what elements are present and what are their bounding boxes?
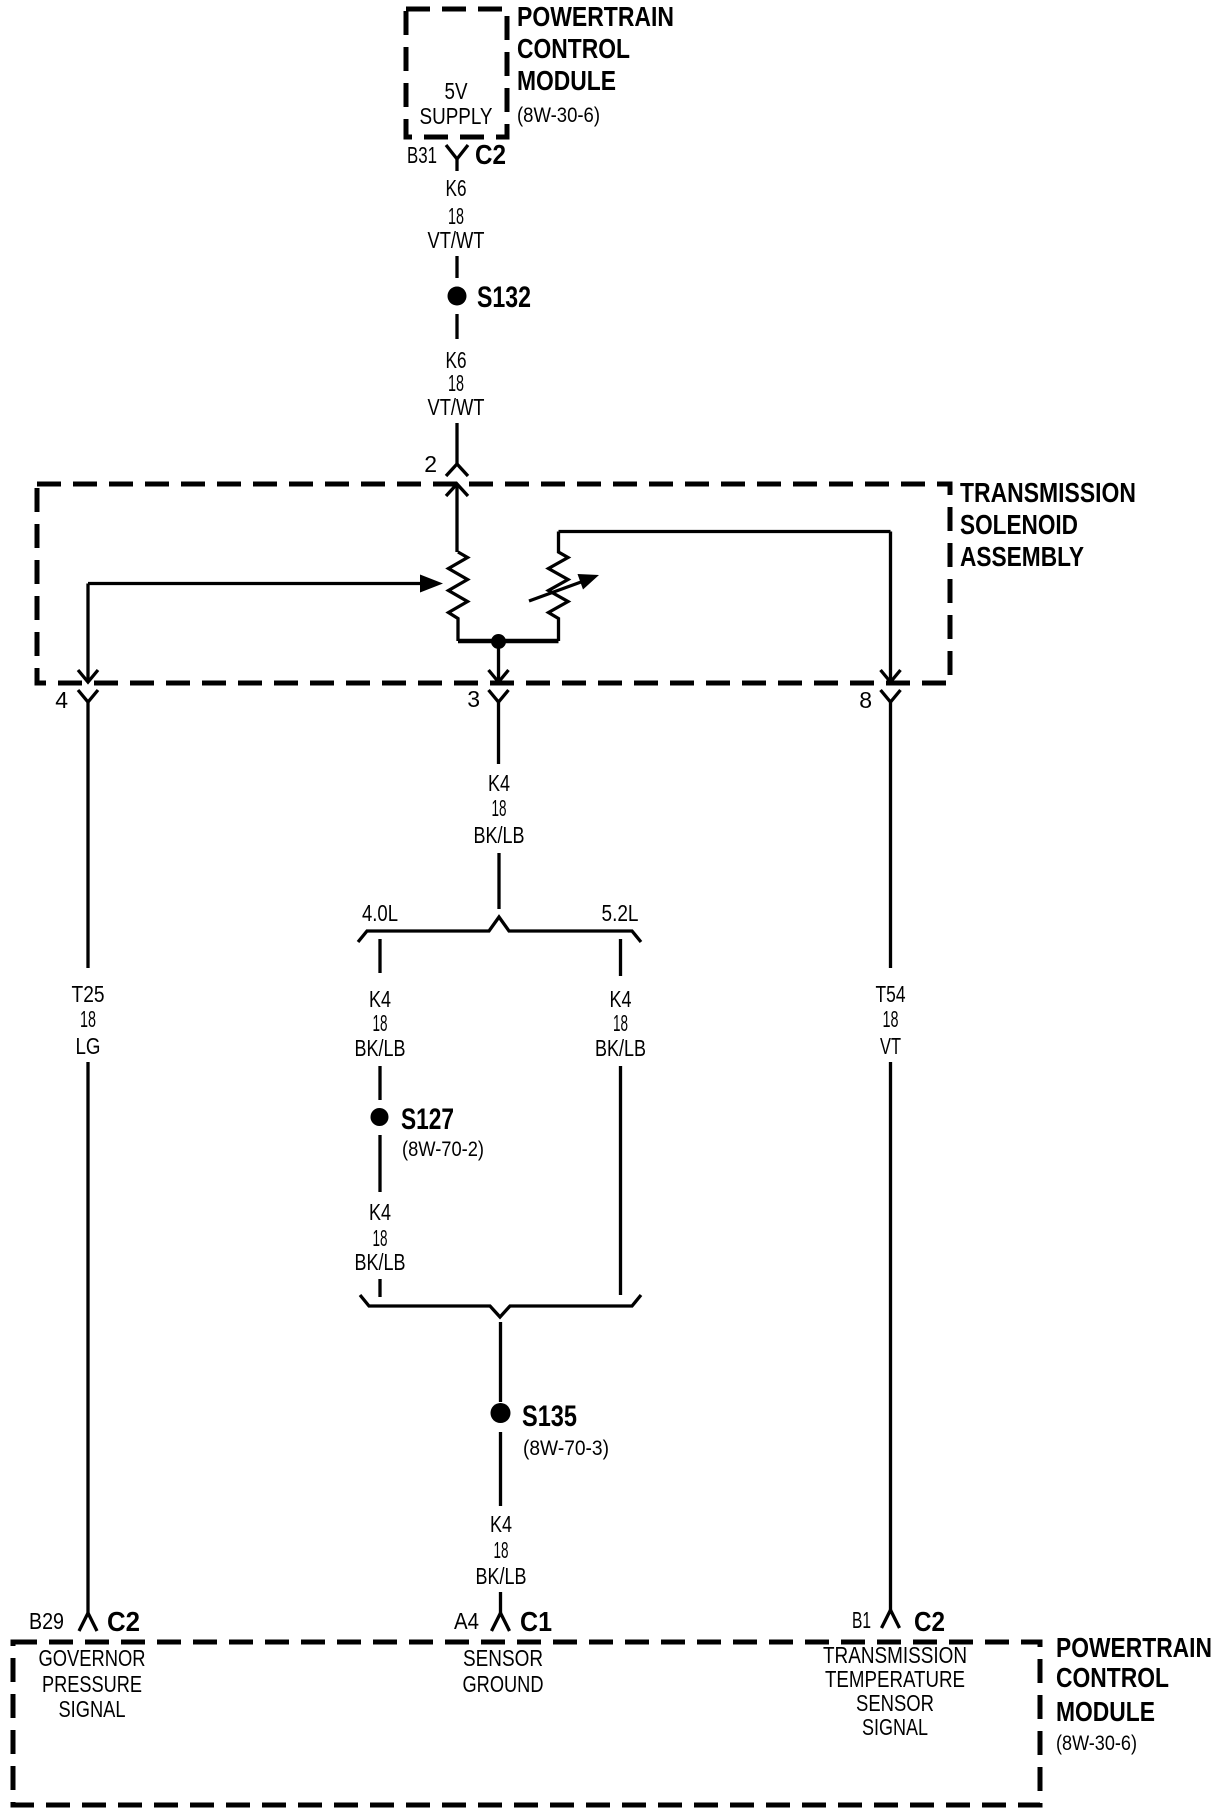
- wire label K6 18 VT/WT (upper): [428, 175, 485, 253]
- svg-text:SIGNAL: SIGNAL: [59, 1696, 126, 1722]
- svg-text:18: 18: [373, 1010, 388, 1036]
- svg-text:3: 3: [467, 686, 480, 712]
- junction wire at resistor bottoms: [458, 639, 559, 644]
- junction node: [491, 634, 506, 649]
- wire from S132 down: [455, 314, 458, 339]
- svg-text:SUPPLY: SUPPLY: [420, 103, 493, 129]
- wire label K4 18 BK/LB (below S127): [355, 1199, 406, 1275]
- component box: transmission solenoid assembly: [37, 484, 950, 683]
- wire 5.2L branch upper: [619, 939, 622, 976]
- svg-text:18: 18: [613, 1010, 628, 1036]
- wire label T25 18 LG: [72, 981, 105, 1059]
- svg-text:GROUND: GROUND: [463, 1671, 544, 1697]
- svg-text:18: 18: [373, 1225, 388, 1251]
- svg-text:18: 18: [448, 203, 464, 229]
- connector fork B29: [79, 1613, 97, 1631]
- wire 5.2L branch long segment: [619, 1066, 622, 1295]
- wire right column lower segment: [889, 1062, 892, 1610]
- pin 2 arrow (into solenoid box): [446, 484, 468, 552]
- connector fork pin 4: [78, 690, 98, 713]
- svg-text:GOVERNOR: GOVERNOR: [39, 1645, 146, 1671]
- wire pin 3 to label: [497, 713, 500, 764]
- wire to solenoid pin 2: [455, 423, 458, 464]
- splice S132: [448, 281, 532, 314]
- svg-text:K6: K6: [446, 175, 467, 201]
- svg-text:S135: S135: [522, 1400, 577, 1433]
- svg-text:SENSOR: SENSOR: [856, 1690, 934, 1716]
- svg-text:SENSOR: SENSOR: [463, 1645, 543, 1671]
- connector fork pin 2: [446, 464, 468, 476]
- wire stem below B31 fork: [455, 159, 458, 171]
- splice S135: [491, 1400, 610, 1460]
- wire label K4 18 BK/LB (bottom): [476, 1511, 527, 1589]
- svg-text:18: 18: [492, 795, 507, 821]
- svg-text:(8W-30-6): (8W-30-6): [1056, 1732, 1137, 1755]
- connector fork pin 8: [881, 690, 901, 713]
- svg-text:K4: K4: [610, 986, 632, 1012]
- title: POWERTRAIN CONTROL MODULE (8W-30-6) bottom: [1056, 1632, 1212, 1755]
- svg-text:BK/LB: BK/LB: [474, 822, 525, 848]
- wire from S135 down: [499, 1432, 502, 1506]
- svg-text:ASSEMBLY: ASSEMBLY: [960, 541, 1084, 572]
- wire from S127 down: [378, 1135, 381, 1192]
- wire temp sensor to pin 8 (inside box): [559, 532, 901, 683]
- svg-text:(8W-30-6): (8W-30-6): [517, 104, 600, 127]
- svg-text:18: 18: [494, 1537, 509, 1563]
- wire left column lower segment: [86, 1062, 89, 1613]
- wire to A4 connector: [499, 1592, 502, 1613]
- module box: powertrain control module (top, 5V supply): [406, 9, 507, 137]
- wire pin 4 branch (inside box): [78, 584, 98, 683]
- resistor: governor pressure sensor: [449, 552, 468, 641]
- svg-text:TRANSMISSION: TRANSMISSION: [823, 1642, 967, 1668]
- wire label T54 18 VT: [876, 981, 906, 1059]
- svg-text:2: 2: [424, 451, 437, 477]
- svg-text:POWERTRAIN: POWERTRAIN: [1056, 1632, 1212, 1663]
- svg-text:18: 18: [448, 370, 464, 396]
- svg-text:PRESSURE: PRESSURE: [42, 1671, 142, 1697]
- svg-text:C2: C2: [107, 1606, 140, 1637]
- svg-text:B29: B29: [29, 1608, 64, 1634]
- svg-text:VT: VT: [880, 1033, 901, 1059]
- svg-text:SIGNAL: SIGNAL: [862, 1714, 928, 1740]
- svg-text:TEMPERATURE: TEMPERATURE: [825, 1666, 965, 1692]
- wire to splice S127: [378, 1066, 381, 1100]
- wire right column upper segment: [889, 713, 892, 968]
- svg-text:LG: LG: [76, 1033, 101, 1059]
- wire label to split brace: [497, 853, 500, 909]
- svg-text:B31: B31: [407, 142, 437, 168]
- svg-text:BK/LB: BK/LB: [355, 1249, 406, 1275]
- svg-text:S132: S132: [477, 281, 531, 314]
- svg-text:VT/WT: VT/WT: [428, 227, 485, 253]
- wire label K4 18 BK/LB (4.0L): [355, 986, 406, 1061]
- svg-text:K4: K4: [488, 770, 510, 796]
- wire 4.0L branch upper: [378, 939, 381, 973]
- wire label K4 18 BK/LB (center upper): [474, 770, 525, 848]
- connector fork B1: [882, 1610, 900, 1628]
- svg-text:5.2L: 5.2L: [602, 900, 639, 926]
- svg-text:(8W-70-2): (8W-70-2): [402, 1138, 484, 1161]
- svg-text:CONTROL: CONTROL: [1056, 1662, 1169, 1693]
- label SENSOR GROUND: [463, 1645, 544, 1697]
- wire left column upper segment: [86, 713, 89, 968]
- wire merge brace to S135: [499, 1322, 502, 1402]
- svg-text:T25: T25: [72, 981, 105, 1007]
- label TRANSMISSION TEMPERATURE SENSOR SIGNAL: [823, 1642, 967, 1740]
- svg-text:POWERTRAIN: POWERTRAIN: [517, 1, 674, 32]
- svg-text:4: 4: [55, 687, 68, 713]
- svg-text:C1: C1: [520, 1606, 552, 1637]
- wire to splice S132: [455, 256, 458, 278]
- svg-text:BK/LB: BK/LB: [595, 1035, 646, 1061]
- svg-text:4.0L: 4.0L: [362, 900, 398, 926]
- connector fork pin 3: [489, 690, 509, 713]
- svg-text:18: 18: [80, 1006, 96, 1032]
- svg-text:B1: B1: [852, 1607, 871, 1633]
- svg-text:CONTROL: CONTROL: [517, 33, 630, 64]
- wire label K6 18 VT/WT (lower): [428, 347, 485, 420]
- svg-text:K4: K4: [369, 1199, 391, 1225]
- splice S127: [371, 1103, 485, 1161]
- svg-text:T54: T54: [876, 981, 906, 1007]
- svg-text:C2: C2: [475, 139, 506, 170]
- svg-text:K4: K4: [369, 986, 391, 1012]
- connector fork B31: [446, 145, 468, 159]
- svg-text:C2: C2: [914, 1606, 945, 1637]
- svg-text:VT/WT: VT/WT: [428, 394, 485, 420]
- svg-text:5V: 5V: [445, 78, 469, 104]
- title: TRANSMISSION SOLENOID ASSEMBLY: [960, 477, 1136, 572]
- svg-text:BK/LB: BK/LB: [355, 1035, 406, 1061]
- connector fork A4: [492, 1613, 510, 1631]
- svg-text:K4: K4: [490, 1511, 512, 1537]
- title: POWERTRAIN CONTROL MODULE (8W-30-6) top: [517, 1, 674, 127]
- svg-text:SOLENOID: SOLENOID: [960, 509, 1078, 540]
- variable-resistor arrow through temperature sensor: [529, 574, 599, 601]
- resistor: transmission temperature sensor: [549, 532, 569, 642]
- svg-text:MODULE: MODULE: [517, 65, 616, 96]
- wire junction to pin 3: [489, 641, 509, 682]
- svg-text:MODULE: MODULE: [1056, 1696, 1155, 1727]
- svg-text:8: 8: [859, 687, 872, 713]
- module box: powertrain control module (bottom): [13, 1642, 1040, 1805]
- svg-text:S127: S127: [401, 1103, 454, 1136]
- engine merge brace: [360, 1295, 641, 1317]
- wire 4.0L branch to merge brace: [378, 1279, 381, 1297]
- svg-text:A4: A4: [454, 1608, 479, 1634]
- wiper arrow to pressure sensor: [88, 575, 443, 593]
- wire label K4 18 BK/LB (5.2L): [595, 986, 646, 1061]
- svg-text:TRANSMISSION: TRANSMISSION: [960, 477, 1136, 508]
- svg-text:BK/LB: BK/LB: [476, 1563, 527, 1589]
- svg-text:18: 18: [883, 1006, 899, 1032]
- engine split brace (4.0L / 5.2L): [358, 917, 641, 942]
- label GOVERNOR PRESSURE SIGNAL: [39, 1645, 146, 1722]
- svg-text:(8W-70-3): (8W-70-3): [523, 1437, 609, 1460]
